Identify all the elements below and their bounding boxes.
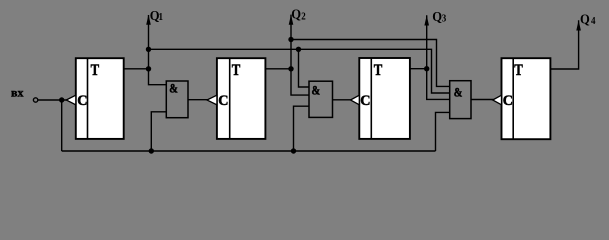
FF2 dynamic clock input triangle (207, 95, 217, 105)
wire: Q2 carry line to AND3 (291, 40, 450, 87)
svg-text:T: T (91, 62, 100, 80)
wire: clock riser to AND3 input (436, 112, 450, 151)
FF2 control section divider (229, 58, 231, 139)
svg-text:C: C (360, 92, 370, 108)
FF3 pin label C (360, 92, 370, 108)
label Q2 (291, 6, 301, 22)
wire: bottom clock bus (62, 150, 436, 152)
FF3 dynamic clock input triangle (351, 95, 360, 105)
junction: FF1 output node (146, 66, 151, 71)
svg-text:Q: Q (580, 11, 590, 27)
flip-flop FF2 body (217, 58, 266, 139)
svg-text:4: 4 (591, 17, 596, 28)
FF3 control section divider (370, 58, 372, 139)
wire: AND3 output to FF4 C (471, 99, 494, 101)
node Q2 vertical wire (arrow stem down to AND2 elbow) (291, 15, 309, 96)
svg-text:2: 2 (301, 12, 306, 23)
wire: FF2 output (266, 68, 292, 70)
FF3 label T (374, 62, 383, 80)
svg-text:Q: Q (432, 8, 442, 24)
FF2 pin label C (218, 92, 228, 108)
wire: FF1 output (124, 68, 149, 70)
label Q4 (580, 11, 590, 27)
wire: Q1 branch down to AND2 input (299, 49, 310, 87)
flip-flop FF4 body (502, 58, 551, 139)
junction: Q2 carry tap (288, 37, 293, 42)
junction: clock bus to AND2 (291, 148, 296, 153)
flip-flop FF3 body (359, 58, 410, 139)
svg-text:1: 1 (159, 13, 164, 24)
junction: clock tap at input (59, 97, 64, 102)
DD3 label & (454, 85, 463, 99)
node вх: input label (11, 86, 23, 100)
wire: AND2 output to FF3 C (333, 99, 352, 101)
junction: clock bus to AND1 (149, 148, 154, 153)
svg-text:T: T (514, 62, 523, 80)
svg-text:C: C (218, 92, 228, 108)
svg-text:&: & (454, 85, 463, 99)
Q4 arrowhead (576, 20, 581, 30)
wire: AND1 output to FF2 C (188, 99, 208, 101)
svg-text:3: 3 (442, 14, 447, 25)
FF2 label T (232, 62, 241, 80)
svg-text:&: & (169, 82, 178, 96)
node Q1 vertical wire (arrow stem down to AND1 elbow) (149, 15, 167, 85)
junction: Q1 carry to AND2 (296, 47, 301, 52)
junction: FF2 output node (288, 66, 293, 71)
wire: clock riser to AND1 input (151, 112, 166, 151)
junction: FF3 output node (424, 66, 429, 71)
FF4 pin label C (503, 92, 513, 108)
Q1 arrowhead (146, 15, 151, 25)
svg-text:C: C (503, 92, 513, 108)
svg-text:&: & (312, 83, 321, 97)
svg-text:вх: вх (11, 86, 23, 100)
wire: FF4 output up to Q4 arrow (550, 20, 578, 69)
flip-flop FF1 body (76, 58, 124, 139)
AND gate DD1 body (166, 81, 188, 118)
AND gate DD2 body (309, 81, 333, 117)
FF4 control section divider (512, 58, 514, 139)
input terminal (open circle) (33, 98, 37, 102)
wire: input to FF1 C (38, 99, 67, 101)
svg-text:T: T (232, 62, 241, 80)
wire: clock drop to bottom bus (61, 100, 63, 151)
svg-text:Q: Q (291, 6, 301, 22)
Q3 arrowhead (424, 15, 429, 25)
DD1 label & (169, 82, 178, 96)
FF1 dynamic clock input triangle (66, 95, 76, 105)
FF4 dynamic clock input triangle (493, 95, 502, 105)
FF4 label T (514, 62, 523, 80)
DD2 label & (312, 83, 321, 97)
label Q1 (150, 7, 160, 23)
junction: Q1 carry tap (146, 47, 151, 52)
label Q3 (432, 8, 442, 24)
svg-text:C: C (77, 92, 87, 108)
node Q3 vertical wire (arrow stem down to AND3 elbow) (427, 15, 450, 99)
AND gate DD3 body (450, 81, 471, 119)
Q2 arrowhead (289, 15, 294, 25)
FF1 pin label C (77, 92, 87, 108)
wire: clock riser to AND2 input (294, 106, 310, 151)
wire: FF3 output (410, 68, 427, 70)
FF1 label T (91, 62, 100, 80)
FF1 control section divider (87, 58, 89, 139)
svg-text:T: T (374, 62, 383, 80)
wire: Q1 carry line to AND3 (149, 49, 450, 93)
